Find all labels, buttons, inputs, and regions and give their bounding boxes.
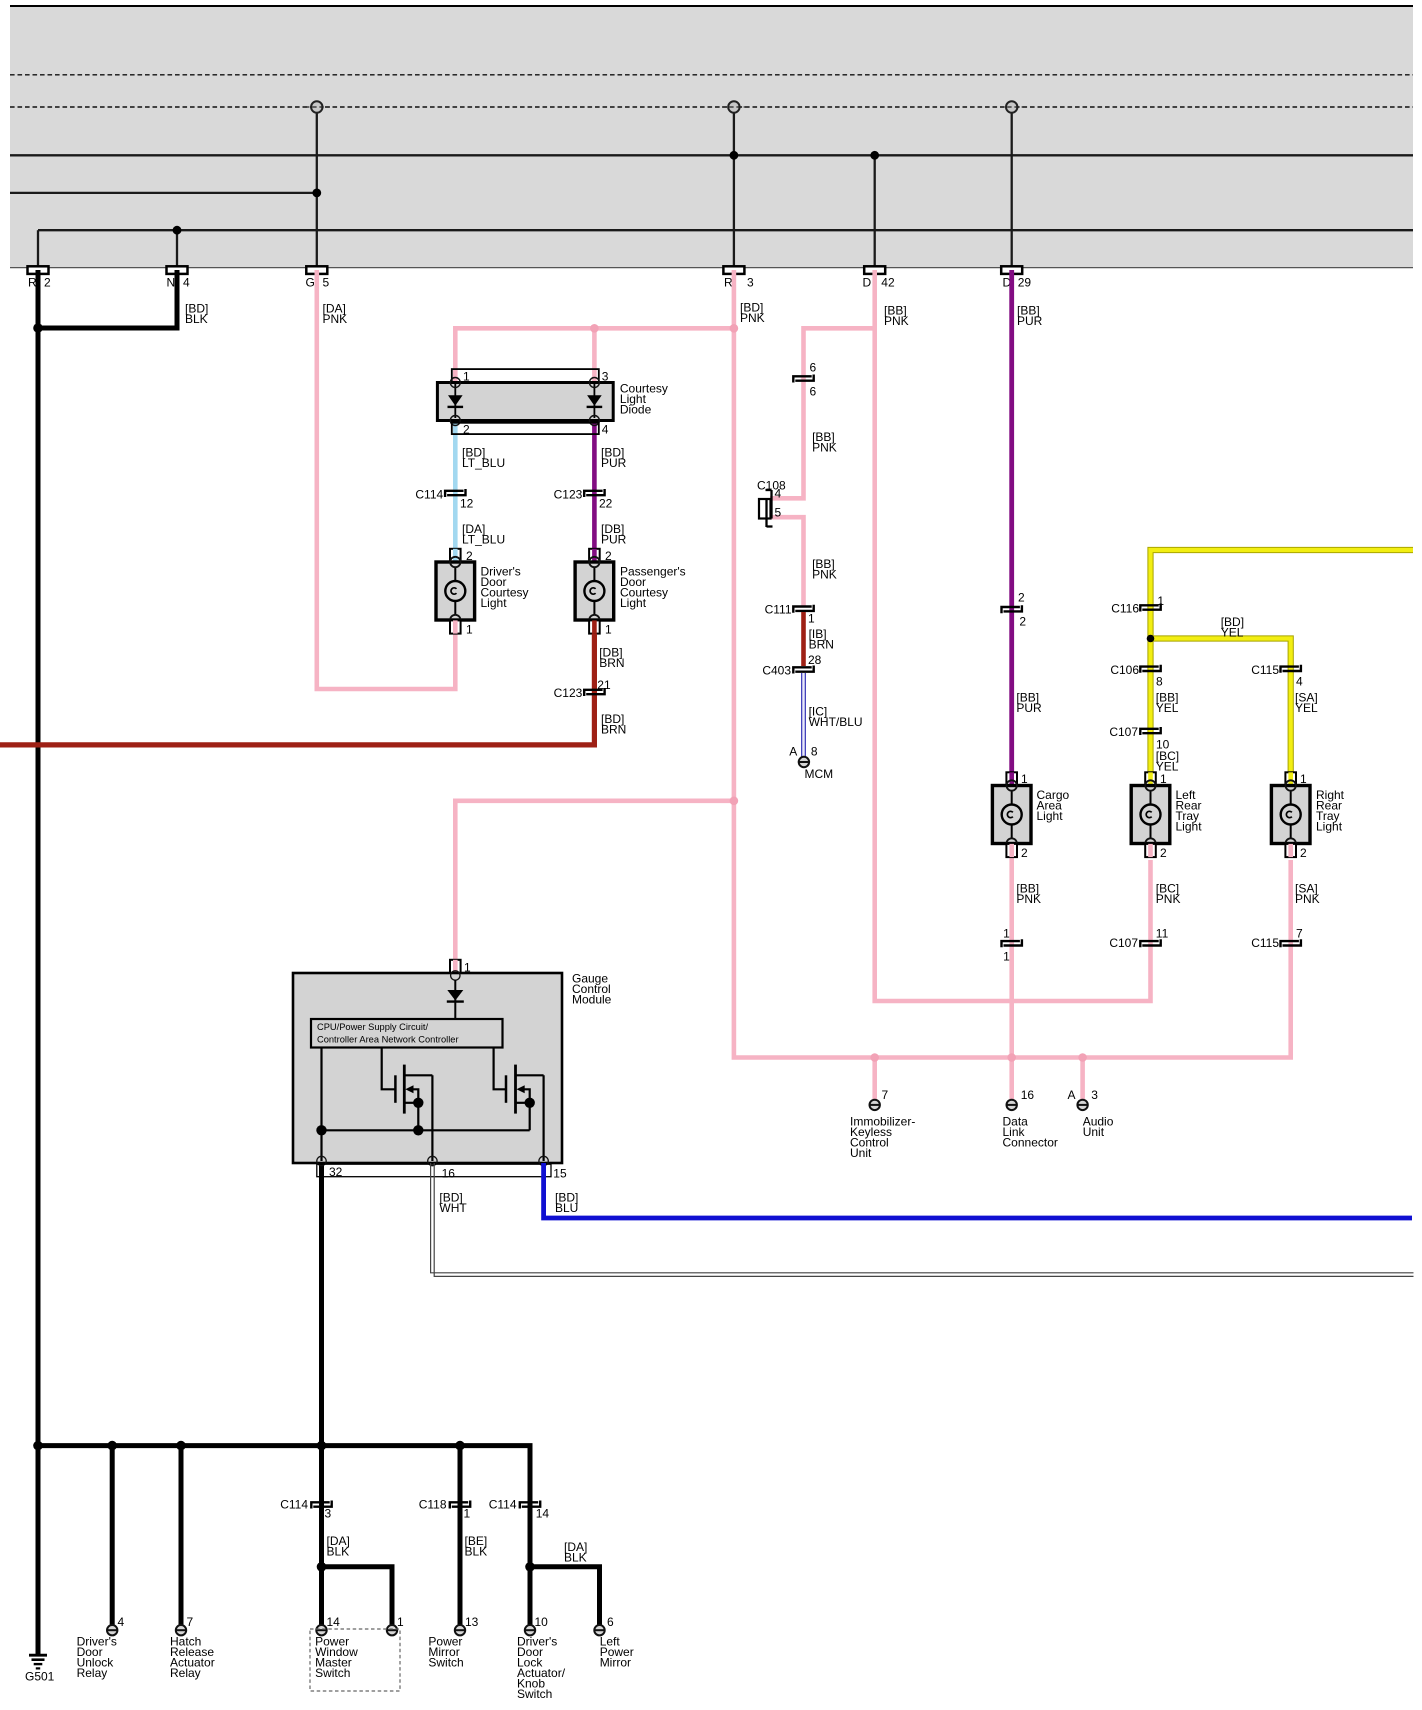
svg-text:22: 22: [599, 497, 613, 511]
junction G5 drop: [312, 189, 321, 198]
junction pink data link stub: [1007, 1053, 1016, 1062]
bus solid line 1: [10, 154, 1413, 156]
bulb right rear tray light: [1271, 786, 1310, 844]
junction pink at diode pin3 riser: [590, 324, 599, 333]
junction pink at R3: [730, 324, 739, 333]
svg-text:8: 8: [1156, 675, 1163, 689]
svg-text:3: 3: [325, 1507, 332, 1521]
svg-text:BLK: BLK: [465, 1545, 488, 1559]
bus node circle R: [728, 101, 739, 112]
svg-text:1: 1: [1003, 950, 1010, 964]
svg-text:PUR: PUR: [601, 532, 627, 546]
svg-text:PUR: PUR: [1016, 701, 1042, 715]
svg-text:Relay: Relay: [77, 1666, 108, 1680]
svg-text:C111: C111: [765, 603, 792, 617]
courtesy light diode body: [437, 383, 613, 421]
power window master switch dashed box: [310, 1629, 400, 1691]
bus dashed line 2: [10, 106, 1413, 108]
wire [BD] WHT gcm pin 16 to right edge: [431, 1163, 1414, 1273]
svg-text:5: 5: [323, 276, 330, 290]
inline connector 6-6: [793, 376, 811, 382]
svg-text:6: 6: [810, 361, 817, 375]
cargo light pin 2 rect: [1006, 844, 1017, 857]
connector D42: [864, 266, 885, 274]
svg-text:1: 1: [464, 1507, 471, 1521]
gcm internal diode: [454, 980, 456, 1019]
bulb left rear tray light: [1131, 786, 1170, 844]
gcm wire Q1 drain to pin 16: [431, 1075, 433, 1161]
terminal left power mirror pin 6: [594, 1625, 604, 1635]
wire drop to D42: [874, 155, 876, 266]
svg-text:1: 1: [397, 1615, 404, 1629]
inline connector C114 pin 14: [520, 1502, 538, 1508]
bulb cargo area light: [992, 786, 1031, 844]
svg-text:Diode: Diode: [620, 402, 652, 416]
diode D2 element: [593, 383, 595, 419]
terminal immobilizer pin 7: [870, 1100, 880, 1110]
svg-text:BLK: BLK: [327, 1545, 350, 1559]
junction at x181: [176, 1441, 186, 1451]
svg-text:Mirror: Mirror: [600, 1655, 631, 1669]
svg-text:Unit: Unit: [1083, 1125, 1105, 1139]
svg-text:Light: Light: [1316, 820, 1343, 834]
svg-text:Switch: Switch: [517, 1687, 552, 1701]
wire [IB] BRN C111 to C403: [801, 612, 806, 666]
svg-text:Controller Area Network Contro: Controller Area Network Controller: [317, 1034, 459, 1044]
svg-text:1: 1: [1003, 926, 1010, 940]
svg-text:4: 4: [775, 487, 782, 501]
svg-text:BLU: BLU: [555, 1201, 578, 1215]
connector N4: [167, 266, 188, 274]
wire [BB] PNK from C108 pin 5 down to C111: [770, 517, 804, 606]
svg-text:YEL: YEL: [1295, 701, 1318, 715]
bus solid line 2: [10, 192, 317, 194]
svg-text:A: A: [789, 744, 797, 758]
svg-text:PNK: PNK: [1295, 892, 1320, 906]
svg-text:C106: C106: [1110, 663, 1139, 677]
wire [BB] PUR D29 to cargo area light: [1009, 270, 1014, 778]
wire [BB] PNK D42 down and over to left tray light pin 2: [875, 270, 1151, 1001]
cargo light pin 1 rect: [1006, 772, 1017, 785]
right tray light pin 2 rect: [1285, 844, 1296, 857]
svg-text:PNK: PNK: [1016, 892, 1041, 906]
junction R2/N4: [33, 323, 43, 333]
svg-text:Light: Light: [1176, 820, 1203, 834]
svg-text:C123: C123: [554, 686, 583, 700]
wire drop to G5: [316, 113, 318, 267]
connector R3: [723, 266, 744, 274]
svg-text:Relay: Relay: [170, 1666, 201, 1680]
svg-text:29: 29: [1018, 276, 1032, 290]
svg-text:C114: C114: [489, 1498, 517, 1512]
inline connector C114 pin 3: [311, 1502, 329, 1508]
svg-text:LT_BLU: LT_BLU: [462, 456, 505, 470]
gcm pin circles bottom: [317, 1156, 326, 1165]
svg-text:14: 14: [536, 1507, 550, 1521]
inline connector C106 pin 8: [1140, 667, 1158, 673]
svg-text:11: 11: [1156, 926, 1169, 940]
wire [BD] LT_BLU diode pin 2 down: [453, 417, 458, 630]
svg-text:BLK: BLK: [185, 312, 208, 326]
svg-text:PNK: PNK: [884, 314, 909, 328]
svg-text:YEL: YEL: [1221, 625, 1244, 639]
svg-text:1: 1: [466, 623, 473, 637]
svg-text:4: 4: [118, 1615, 125, 1629]
svg-text:PUR: PUR: [1017, 314, 1043, 328]
terminal power window master switch pin 14: [316, 1625, 326, 1635]
connector R2: [28, 266, 49, 274]
svg-text:BRN: BRN: [809, 638, 834, 652]
ground symbol G501: [29, 1654, 47, 1657]
svg-text:Unit: Unit: [850, 1146, 872, 1160]
svg-text:YEL: YEL: [1156, 701, 1179, 715]
svg-text:PNK: PNK: [812, 441, 837, 455]
inline connector C115 pin 4: [1281, 667, 1299, 673]
svg-text:Switch: Switch: [428, 1655, 463, 1669]
inline connector C403 pin 28: [793, 667, 811, 673]
svg-text:C115: C115: [1251, 663, 1279, 677]
svg-text:42: 42: [881, 276, 895, 290]
gcm bottom pin bracket: [317, 1164, 551, 1177]
junction N4 drop: [173, 226, 182, 235]
band bottom border: [10, 267, 1413, 269]
svg-text:PNK: PNK: [323, 312, 348, 326]
svg-text:10: 10: [535, 1615, 549, 1629]
gcm wire cpu to left gate: [382, 1048, 396, 1090]
wire R2 ground feed: [36, 270, 41, 1655]
gcm wire cpu to pin 32: [320, 1048, 322, 1162]
courtesy light diode top pin bracket: [452, 369, 599, 382]
wire drop to N4: [176, 230, 178, 266]
inline connector C115 pin 7: [1281, 941, 1299, 947]
wire [BD] BLU gcm pin 15 to right edge: [544, 1163, 1412, 1218]
svg-text:N: N: [167, 276, 176, 290]
svg-text:D: D: [863, 276, 872, 290]
svg-text:G501: G501: [25, 1670, 55, 1684]
junction pink immobilizer stub: [870, 1053, 879, 1062]
diode D1 element: [454, 383, 456, 419]
inline connector C114 pin 12: [445, 491, 463, 497]
inline connector C118 pin 1: [450, 1502, 468, 1508]
gauge control module body: [293, 973, 562, 1163]
svg-text:C114: C114: [415, 488, 443, 502]
driver courtesy light pin 2 rect: [450, 549, 461, 562]
svg-text:PUR: PUR: [601, 456, 627, 470]
wire pink branch to gauge control module pin 1: [455, 801, 734, 962]
wire drop to R2: [37, 230, 39, 266]
driver courtesy light pin 1 rect: [450, 620, 461, 633]
svg-text:G: G: [306, 276, 315, 290]
right tray light pin 1 rect: [1285, 772, 1296, 785]
svg-text:PNK: PNK: [812, 568, 837, 582]
terminal MCM pin A8: [799, 757, 809, 767]
svg-text:1: 1: [605, 623, 612, 637]
inline connector C107 pin 10: [1140, 729, 1158, 735]
wire to Hatch release relay pin 7: [179, 1446, 184, 1626]
bulb passenger door courtesy light: [575, 562, 614, 620]
passenger courtesy light pin 2 rect: [589, 549, 600, 562]
connector G5: [306, 266, 327, 274]
svg-text:Light: Light: [481, 596, 508, 610]
bus dashed line 1: [10, 74, 1413, 76]
terminal power mirror switch pin 13: [455, 1625, 465, 1635]
svg-text:Connector: Connector: [1003, 1135, 1058, 1149]
transistor Q2: [505, 1075, 508, 1103]
power distribution band: [10, 7, 1413, 268]
terminal audio unit pin A3: [1077, 1100, 1087, 1110]
svg-text:8: 8: [811, 744, 818, 758]
wire pink cargo light pin2 chain / data link stub: [1009, 857, 1014, 1101]
wire drop to R3: [733, 113, 735, 267]
bus node circle D: [1006, 101, 1017, 112]
svg-text:28: 28: [808, 653, 822, 667]
svg-text:C123: C123: [554, 488, 583, 502]
gcm source bus: [322, 1129, 530, 1131]
svg-text:MCM: MCM: [805, 767, 834, 781]
svg-text:Light: Light: [1037, 809, 1064, 823]
wire [IC] WHT/BLU C403 to MCM: [801, 673, 806, 758]
svg-text:C403: C403: [762, 664, 791, 678]
svg-text:7: 7: [1296, 926, 1303, 940]
passenger courtesy light pin 1 rect: [589, 620, 600, 633]
svg-text:5: 5: [775, 506, 782, 520]
gcm wire cpu to right gate: [494, 1048, 506, 1090]
bus solid line 3: [38, 229, 1413, 231]
wire [BD] YEL branch to right tray light: [1151, 639, 1291, 779]
wire [BB] PNK branch to MCM chain: [770, 328, 875, 498]
svg-text:2: 2: [1018, 591, 1025, 605]
wire to power mirror switch pin 13: [458, 1446, 463, 1626]
wire pink header to diode: [455, 328, 734, 385]
junction branch pin6: [525, 1562, 535, 1572]
svg-text:16: 16: [442, 1167, 456, 1181]
svg-text:2: 2: [44, 276, 51, 290]
terminal power window master switch pin 1: [387, 1625, 397, 1635]
junction yellow: [1147, 635, 1155, 643]
wire [DB] BRN passenger light pin1 down: [0, 634, 594, 745]
left tray light pin 1 rect: [1145, 772, 1156, 785]
diode pin circles: [450, 378, 460, 388]
svg-text:BLK: BLK: [564, 1550, 587, 1564]
terminal door lock actuator pin 10: [525, 1625, 535, 1635]
junction branch pin1: [317, 1562, 327, 1572]
ground bus horizontal: [38, 1446, 530, 1626]
junction ground bus at R2: [33, 1441, 43, 1451]
svg-text:15: 15: [553, 1167, 567, 1181]
wire GCM pin32 to power window switch pin 14: [319, 1163, 324, 1626]
inline connector C107 pin 11: [1140, 941, 1158, 947]
junction pink at R3 lower: [730, 797, 739, 806]
svg-text:3: 3: [1091, 1088, 1098, 1102]
wire pink stub to audio unit: [1080, 1058, 1085, 1101]
wire to Driver door unlock relay pin 4: [110, 1446, 115, 1626]
svg-text:3: 3: [747, 276, 754, 290]
gauge control module pin 1 rect: [450, 960, 461, 973]
wire [BD] PNK R3 main down to splice bus: [734, 270, 1291, 1058]
wire [BD] YEL from right edge: [1151, 550, 1414, 778]
svg-text:13: 13: [465, 1615, 479, 1629]
junction at x112: [107, 1441, 117, 1451]
svg-text:CPU/Power Supply Circuit/: CPU/Power Supply Circuit/: [317, 1022, 428, 1032]
svg-text:6: 6: [607, 1615, 614, 1629]
inline connector C108 pins 4/5 (vertical): [759, 499, 771, 519]
inline connector C123 pin 22: [584, 491, 602, 497]
svg-text:32: 32: [329, 1165, 343, 1179]
svg-text:4: 4: [183, 276, 190, 290]
svg-text:2: 2: [1300, 846, 1307, 860]
inline connector 1-1: [1002, 941, 1020, 947]
terminal data link connector pin 16: [1007, 1100, 1017, 1110]
svg-text:A: A: [1068, 1088, 1076, 1102]
svg-text:12: 12: [460, 497, 474, 511]
svg-text:C107: C107: [1109, 936, 1138, 950]
svg-text:PNK: PNK: [740, 311, 765, 325]
inline connector C116 pin 1: [1140, 605, 1158, 611]
svg-text:7: 7: [187, 1615, 194, 1629]
svg-text:7: 7: [882, 1088, 889, 1102]
junction pink audio stub: [1078, 1053, 1087, 1062]
svg-text:C118: C118: [419, 1498, 447, 1512]
wire [BD]/[DB] PUR diode pin 4 down: [592, 417, 597, 630]
cpu box: [311, 1019, 503, 1048]
svg-text:C115: C115: [1251, 936, 1279, 950]
svg-text:14: 14: [327, 1615, 341, 1629]
svg-text:2: 2: [1021, 846, 1028, 860]
svg-text:BRN: BRN: [599, 656, 624, 670]
terminal hatch release actuator relay pin 7: [176, 1625, 186, 1635]
wire [DA] PNK from G5 to driver courtesy light: [317, 270, 456, 689]
svg-text:WHT: WHT: [439, 1201, 467, 1215]
left tray light pin 2 rect: [1145, 844, 1156, 857]
inline connector C111 pin 1: [793, 607, 811, 613]
svg-text:2: 2: [463, 423, 470, 437]
transistor Q1: [394, 1075, 397, 1103]
svg-text:BRN: BRN: [601, 723, 626, 737]
svg-text:Module: Module: [572, 993, 612, 1007]
wire pink stub to immobilizer unit: [872, 1058, 877, 1101]
inline connector C123 pin 21: [584, 690, 602, 696]
wire pink riser diode pin 3: [592, 328, 597, 385]
gcm pin 1 circle: [451, 971, 460, 980]
bus node circle G: [311, 101, 322, 112]
svg-text:1: 1: [808, 612, 815, 626]
junction D42 drop: [870, 151, 879, 160]
svg-text:C116: C116: [1111, 602, 1139, 616]
svg-text:WHT/BLU: WHT/BLU: [809, 715, 863, 729]
junction at x321: [317, 1441, 327, 1451]
svg-text:Light: Light: [620, 596, 647, 610]
svg-text:16: 16: [1021, 1088, 1035, 1102]
band top border: [10, 5, 1413, 7]
svg-text:4: 4: [1296, 675, 1303, 689]
wire branch to power window switch pin 1: [322, 1567, 393, 1626]
svg-text:6: 6: [810, 385, 817, 399]
connector D29: [1001, 266, 1022, 274]
svg-text:C114: C114: [280, 1498, 308, 1512]
courtesy light diode bottom pin bracket: [452, 423, 599, 434]
wire N4 to R2 joint: [38, 270, 177, 328]
svg-text:LT_BLU: LT_BLU: [462, 532, 505, 546]
svg-text:PNK: PNK: [1156, 892, 1181, 906]
gcm wire Q2 drain to pin 15: [542, 1075, 544, 1161]
wire drop to D29: [1011, 113, 1013, 267]
terminal driver door unlock relay pin 4: [107, 1625, 117, 1635]
svg-text:Switch: Switch: [315, 1666, 350, 1680]
junction R3 drop: [730, 151, 739, 160]
svg-text:2: 2: [1019, 614, 1026, 628]
svg-text:4: 4: [602, 423, 609, 437]
svg-text:C107: C107: [1109, 725, 1138, 739]
bulb driver door courtesy light: [436, 562, 475, 620]
wire branch to left power mirror pin 6: [530, 1567, 600, 1626]
svg-text:2: 2: [1160, 846, 1167, 860]
junction at x460: [455, 1441, 465, 1451]
inline connector 2-2: [1002, 607, 1020, 613]
